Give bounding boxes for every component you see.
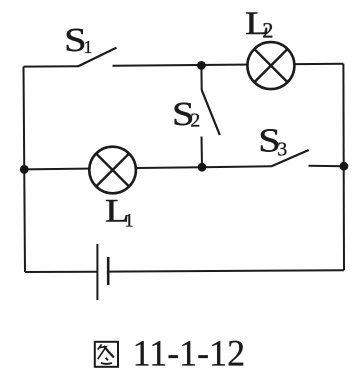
wire middle-right segment (309, 165, 344, 167)
lamp L1 (89, 147, 136, 194)
svg-text:11-1-12: 11-1-12 (133, 334, 246, 375)
junction node on left wire (20, 165, 29, 174)
wire middle-left segment (24, 167, 202, 169)
junction node on right wire (340, 162, 349, 171)
label S3 (258, 122, 287, 160)
svg-text:1: 1 (84, 37, 93, 57)
battery cell short plate (107, 257, 110, 285)
caption text 11-1-12 (133, 334, 246, 375)
wire bottom-right segment (108, 270, 344, 271)
switch S1 blade (78, 48, 117, 67)
label S1 (64, 22, 92, 59)
svg-text:1: 1 (124, 210, 134, 231)
junction node below S2 (198, 163, 207, 172)
junction node on top wire (197, 61, 206, 70)
wire top-left segment (24, 65, 79, 67)
label L2 (245, 6, 274, 43)
lamp L2 (247, 42, 294, 89)
wire middle-center segment (202, 165, 272, 168)
label S2 (172, 96, 200, 133)
svg-text:2: 2 (262, 18, 273, 43)
wire left side (24, 67, 26, 272)
wire bottom-left segment (25, 271, 97, 273)
battery cell long plate (96, 244, 98, 300)
switch S3 blade (272, 150, 309, 166)
wire top-right segment (113, 64, 344, 66)
switch S2 lower stub wire (201, 137, 204, 168)
label L1 (105, 194, 134, 232)
caption character tu (box of CJK 图) (95, 342, 118, 367)
switch S2 blade (202, 90, 220, 135)
svg-text:2: 2 (190, 110, 200, 132)
caption character tu inner strokes (dong component) (98, 344, 114, 364)
switch S2 upper stub wire (200, 65, 202, 90)
wire right side (342, 64, 345, 271)
svg-text:3: 3 (277, 138, 287, 160)
